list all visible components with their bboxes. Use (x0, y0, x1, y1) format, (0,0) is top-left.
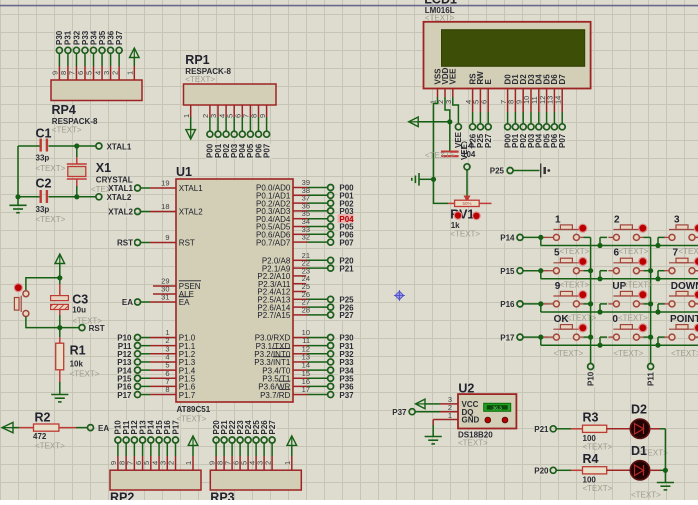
svg-text:RP1: RP1 (185, 53, 209, 67)
svg-text:P20: P20 (534, 467, 549, 476)
svg-text:P37: P37 (392, 408, 407, 417)
svg-text:XTAL1: XTAL1 (108, 184, 133, 193)
svg-text:EA: EA (98, 424, 109, 433)
svg-text:R2: R2 (35, 411, 51, 425)
svg-text:2: 2 (110, 71, 119, 75)
svg-text:<TEXT>: <TEXT> (70, 370, 100, 379)
svg-text:9: 9 (165, 233, 169, 242)
svg-text:CRYSTAL: CRYSTAL (96, 176, 133, 185)
svg-text:EA: EA (179, 298, 190, 307)
svg-text:VEE: VEE (449, 68, 458, 85)
svg-text:EA: EA (122, 298, 133, 307)
svg-text:33p: 33p (36, 154, 50, 163)
svg-text:P11: P11 (647, 372, 656, 386)
svg-text:P16: P16 (500, 300, 515, 309)
svg-text:1: 1 (283, 461, 292, 465)
svg-text:100: 100 (583, 434, 597, 443)
svg-text:POINT: POINT (670, 314, 698, 325)
svg-text:100: 100 (583, 475, 597, 484)
svg-text:472: 472 (33, 432, 47, 441)
svg-text:E: E (484, 79, 493, 85)
svg-text:<TEXT>: <TEXT> (583, 443, 613, 452)
svg-text:U1: U1 (176, 165, 192, 179)
svg-text:3: 3 (674, 215, 680, 226)
svg-text:P10: P10 (587, 371, 596, 386)
svg-text:P07: P07 (339, 238, 354, 247)
svg-text:DOWN: DOWN (671, 281, 698, 292)
svg-text:19: 19 (161, 179, 169, 188)
svg-text:1: 1 (555, 215, 561, 226)
svg-text:R3: R3 (583, 411, 599, 425)
svg-text:<TEXT>: <TEXT> (72, 317, 102, 326)
svg-text:P21: P21 (534, 425, 549, 434)
svg-text:P17: P17 (117, 391, 132, 400)
svg-text:XTAL2: XTAL2 (179, 208, 203, 217)
svg-text:17: 17 (302, 385, 310, 394)
svg-text:RST: RST (117, 239, 133, 248)
svg-text:P1.7: P1.7 (179, 391, 196, 400)
svg-text:1: 1 (184, 461, 193, 465)
svg-text:<TEXT>: <TEXT> (177, 415, 207, 424)
svg-text:P17: P17 (171, 420, 180, 435)
svg-text:18: 18 (161, 202, 169, 211)
svg-text:P0.7/AD7: P0.7/AD7 (256, 238, 291, 247)
svg-text:33p: 33p (36, 205, 50, 214)
svg-text:RST: RST (179, 239, 195, 248)
svg-text:30: 30 (161, 285, 169, 294)
svg-text:2: 2 (167, 461, 176, 465)
svg-text:10k: 10k (70, 360, 84, 369)
svg-text:X1: X1 (96, 161, 111, 175)
svg-text:P14: P14 (500, 234, 515, 243)
svg-text:P21: P21 (339, 264, 354, 273)
svg-text:<TEXT>: <TEXT> (623, 280, 653, 289)
svg-text:<TEXT>: <TEXT> (185, 75, 215, 84)
svg-text:P27: P27 (268, 420, 277, 435)
svg-text:P17: P17 (500, 333, 515, 342)
svg-text:C1: C1 (36, 127, 52, 141)
svg-text:<TEXT>: <TEXT> (554, 349, 584, 358)
svg-text:P37: P37 (339, 391, 354, 400)
svg-text:10u: 10u (72, 306, 86, 315)
svg-text:<TEXT>: <TEXT> (583, 484, 613, 493)
svg-text:RP4: RP4 (52, 103, 76, 117)
svg-text:<TEXT>: <TEXT> (425, 151, 455, 160)
svg-text:P37: P37 (115, 30, 124, 45)
svg-text:<TEXT>: <TEXT> (567, 314, 597, 323)
svg-text:U2: U2 (458, 382, 474, 396)
svg-text:XTAL1: XTAL1 (179, 184, 203, 193)
svg-text:36.3: 36.3 (493, 405, 503, 411)
svg-text:P25: P25 (490, 167, 505, 176)
svg-text:<TEXT>: <TEXT> (560, 247, 590, 256)
svg-text:28: 28 (302, 305, 310, 314)
svg-text:<TEXT>: <TEXT> (679, 247, 698, 256)
svg-text:R1: R1 (70, 344, 86, 358)
svg-text:D1: D1 (631, 444, 647, 458)
svg-text:GND: GND (462, 416, 480, 425)
svg-text:<TEXT>: <TEXT> (36, 215, 66, 224)
svg-text:<TEXT>: <TEXT> (560, 280, 590, 289)
svg-text:2: 2 (263, 461, 272, 465)
svg-text:<TEXT>: <TEXT> (450, 230, 480, 239)
svg-text:8: 8 (165, 385, 169, 394)
svg-text:<TEXT>: <TEXT> (35, 442, 65, 451)
svg-text:P2.7/A15: P2.7/A15 (257, 311, 290, 320)
svg-text:104: 104 (462, 150, 476, 159)
svg-text:RP3: RP3 (210, 491, 234, 501)
svg-text:<TEXT>: <TEXT> (619, 247, 649, 256)
svg-text:<TEXT>: <TEXT> (52, 126, 82, 135)
svg-text:50%: 50% (462, 201, 471, 206)
svg-text:32: 32 (302, 233, 310, 242)
svg-text:P15: P15 (500, 267, 515, 276)
svg-text:C3: C3 (72, 293, 88, 307)
svg-text:P3.7/RD: P3.7/RD (260, 391, 290, 400)
svg-text:<TEXT>: <TEXT> (614, 349, 644, 358)
svg-text:2: 2 (614, 215, 620, 226)
svg-text:RP2: RP2 (110, 491, 134, 501)
svg-text:XTAL2: XTAL2 (107, 193, 132, 202)
svg-text:1: 1 (126, 71, 135, 75)
svg-text:<TEXT>: <TEXT> (36, 164, 66, 173)
svg-text:XTAL1: XTAL1 (107, 142, 132, 151)
svg-text:P07: P07 (558, 133, 567, 148)
svg-text:9: 9 (258, 114, 267, 118)
svg-text:C2: C2 (36, 177, 52, 191)
svg-text:D2: D2 (631, 403, 647, 417)
svg-text:R4: R4 (583, 452, 599, 466)
svg-text:<TEXT>: <TEXT> (671, 349, 698, 358)
svg-text:1: 1 (182, 114, 191, 118)
svg-text:D7: D7 (558, 74, 567, 85)
svg-text:XTAL2: XTAL2 (108, 208, 133, 217)
svg-text:P07: P07 (262, 143, 271, 158)
svg-text:<TEXT>: <TEXT> (618, 314, 648, 323)
svg-text:AT89C51: AT89C51 (177, 405, 211, 414)
svg-text:<TEXT>: <TEXT> (458, 439, 488, 448)
svg-text:1: 1 (448, 411, 452, 420)
svg-text:<TEXT>: <TEXT> (631, 491, 661, 500)
svg-text:P27: P27 (484, 133, 493, 148)
svg-text:P27: P27 (339, 311, 354, 320)
